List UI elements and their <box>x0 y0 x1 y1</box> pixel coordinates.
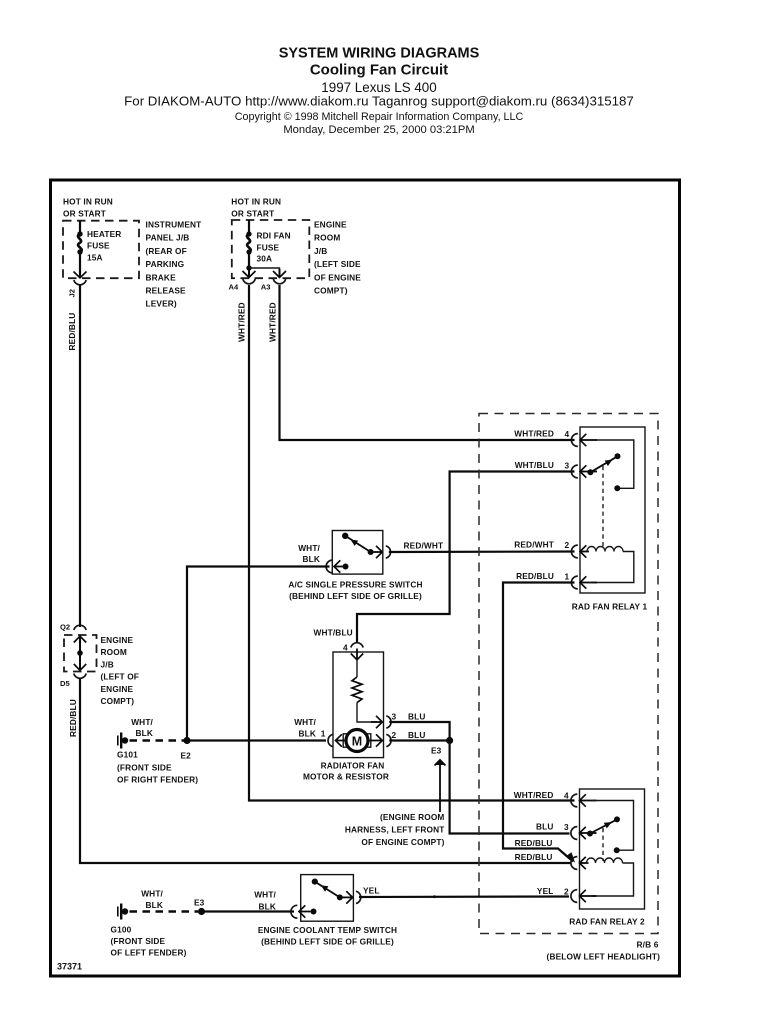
svg-text:E3: E3 <box>194 898 205 908</box>
svg-text:BLU: BLU <box>536 821 554 831</box>
connector arrow out right of a/c switch <box>371 546 383 558</box>
label WHT/BLK (temp switch feed) <box>254 890 276 912</box>
svg-text:WHT/BLU: WHT/BLU <box>314 627 353 637</box>
connector arrow down to D5 <box>74 653 86 670</box>
switch output dot <box>368 549 374 555</box>
wire WHT/BLU from relay1 pin3 to radiator fan pin4 <box>357 472 575 644</box>
relay1 pin 1: label RED/BLU 1 <box>516 571 569 582</box>
relay2 pin2 female cup <box>571 890 577 903</box>
wire branch to A3 <box>249 268 280 269</box>
wire pin4 to resistor <box>356 658 358 677</box>
svg-text:2: 2 <box>564 886 569 896</box>
svg-text:1: 1 <box>565 571 570 581</box>
svg-text:37371: 37371 <box>57 962 82 972</box>
connector arrow up into Q2 <box>74 636 86 652</box>
connector female cup fan pin2 <box>386 734 391 746</box>
label RDI FAN FUSE 30A <box>257 230 291 263</box>
svg-text:E3: E3 <box>431 746 442 756</box>
svg-text:BLK: BLK <box>298 729 316 739</box>
svg-text:RED/WHT: RED/WHT <box>514 539 554 549</box>
relay2 pin2 arrow <box>580 890 597 902</box>
svg-text:YEL: YEL <box>363 886 380 896</box>
svg-text:J2: J2 <box>68 289 77 297</box>
svg-text:WHT/: WHT/ <box>131 717 153 727</box>
svg-text:J/B: J/B <box>314 246 327 256</box>
label ENGINE COOLANT TEMP SWITCH <box>258 925 397 947</box>
relay1 pin3 female cup <box>571 465 577 478</box>
speck on YEL wire <box>433 895 436 898</box>
radiator fan motor and resistor box <box>333 652 384 758</box>
relay1 internal wire pin4 to fixed contact <box>592 440 634 488</box>
svg-text:RED/BLU: RED/BLU <box>515 852 553 862</box>
engine room J/B dashed box (top) <box>232 220 309 278</box>
svg-text:E2: E2 <box>181 751 192 761</box>
connector A4 female cup <box>243 279 255 284</box>
svg-text:WHT/: WHT/ <box>298 543 320 553</box>
svg-text:FUSE: FUSE <box>87 241 110 251</box>
relay1 pin 2: label RED/WHT 2 <box>514 539 569 550</box>
instrument panel J/B dashed box <box>63 221 139 279</box>
relay2 switch throw contact dot <box>614 816 620 822</box>
ground G101 <box>118 733 128 749</box>
svg-text:BLK: BLK <box>145 900 163 910</box>
svg-text:INSTRUMENT: INSTRUMENT <box>146 220 202 230</box>
svg-text:4: 4 <box>565 429 570 439</box>
relay1 pin1 arrow <box>580 576 597 588</box>
wire RED/BLU from J2 down to Q2 <box>79 285 81 627</box>
wire WHT/BLK from E3 to coolant temp switch <box>202 910 295 912</box>
wire resistor to pin3 <box>357 703 377 722</box>
relay2 pin 2: label YEL 2 <box>537 886 569 897</box>
svg-text:G101: G101 <box>117 750 138 760</box>
relay1 switch arm <box>590 456 617 472</box>
relay2 pin4 arrow <box>580 794 597 806</box>
label A/C SINGLE PRESSURE SWITCH <box>288 580 422 602</box>
wire BLU fan pin3 to node E3 <box>389 722 449 737</box>
relay2 pin3 female cup <box>571 827 577 840</box>
relay2 actuation dashed link <box>602 828 604 861</box>
relay1 switch movable contact dot <box>587 469 593 475</box>
svg-text:FUSE: FUSE <box>257 242 280 252</box>
switch arm a/c pressure switch <box>345 536 370 552</box>
svg-text:RADIATOR FAN: RADIATOR FAN <box>321 761 385 771</box>
label G101 (FRONT SIDE OF RIGHT FENDER) <box>117 750 198 785</box>
wire RED/BLU relay1 pin1 to relay2 coil feed <box>503 583 575 862</box>
svg-text:RED/BLU: RED/BLU <box>68 699 78 737</box>
connector female cup fan pin3 <box>386 716 391 728</box>
svg-text:RED/BLU: RED/BLU <box>67 313 77 351</box>
svg-text:(ENGINE ROOM: (ENGINE ROOM <box>380 812 445 822</box>
svg-text:BLK: BLK <box>258 902 276 912</box>
labels 2 BLU <box>392 730 426 740</box>
a/c pressure switch box <box>332 531 383 575</box>
node E3 junction dot <box>446 737 453 744</box>
svg-text:RDI FAN: RDI FAN <box>257 230 291 240</box>
relay1 pin4 female cup <box>571 434 577 447</box>
svg-text:RAD FAN RELAY 1: RAD FAN RELAY 1 <box>572 602 648 612</box>
svg-text:LEVER): LEVER) <box>146 299 177 309</box>
relay1 fixed contact dot <box>614 485 620 491</box>
relay2 coil <box>587 858 623 863</box>
wire WHT/RED from A3 down and right to relay1 pin4 <box>280 285 575 440</box>
node E2 junction dot <box>183 737 190 744</box>
engine room J/B (left) dashed box <box>64 635 97 672</box>
svg-text:Cooling Fan Circuit: Cooling Fan Circuit <box>310 62 448 79</box>
connector female cup right of a/c switch <box>386 546 391 558</box>
relay1 pin2 female cup <box>571 545 577 558</box>
svg-text:ENGINE: ENGINE <box>314 220 347 230</box>
resistor (fan motor resistor) <box>352 677 362 703</box>
label G100 (FRONT SIDE OF LEFT FENDER) <box>111 924 187 957</box>
connector arrow at J/B bottom <box>74 266 87 278</box>
svg-text:WHT/RED: WHT/RED <box>514 428 554 438</box>
connector A3 female cup <box>273 279 285 284</box>
relay1 actuation dashed link <box>602 466 604 549</box>
svg-text:WHT/: WHT/ <box>254 890 276 900</box>
svg-text:Copyright © 1998 Mitchell Repa: Copyright © 1998 Mitchell Repair Informa… <box>235 111 524 123</box>
relay2 fixed contact dot <box>614 847 620 853</box>
svg-text:3: 3 <box>392 712 397 722</box>
svg-text:(LEFT OF: (LEFT OF <box>101 672 140 682</box>
temp switch output dot <box>337 894 343 900</box>
relay2 internal wire coil to pin2 <box>592 863 634 896</box>
svg-text:HOT IN RUN: HOT IN RUN <box>231 197 281 207</box>
svg-text:4: 4 <box>564 790 569 800</box>
connector arrow A3 <box>273 269 286 277</box>
connector arrow into temp switch left pin <box>299 905 311 917</box>
svg-text:RED/BLU: RED/BLU <box>516 571 554 581</box>
connector arrow out fan pin3 <box>371 716 382 728</box>
svg-text:OF ENGINE COMPT): OF ENGINE COMPT) <box>361 837 444 847</box>
relay2 pin 3: label BLU 3 <box>536 821 569 832</box>
svg-text:J/B: J/B <box>101 659 114 669</box>
svg-text:15A: 15A <box>87 253 103 263</box>
connector D5 female cup <box>74 674 86 679</box>
svg-text:COMPT): COMPT) <box>314 286 348 296</box>
relay2 coil pin arrow <box>580 857 589 869</box>
label WHT/BLK (ground lead G100) <box>141 889 163 911</box>
relay1 coil <box>587 547 623 552</box>
relay RAD FAN RELAY 2 box <box>580 789 645 909</box>
wire WHT/RED from A4 down and right to relay2 pin4 <box>249 285 575 801</box>
svg-text:ROOM: ROOM <box>101 647 127 657</box>
svg-text:OR START: OR START <box>63 209 106 219</box>
svg-text:WHT/RED: WHT/RED <box>514 790 554 800</box>
svg-text:D5: D5 <box>60 679 70 688</box>
temp switch contact dot (top) <box>312 879 318 885</box>
relay2 internal wire pin4 to fixed contact <box>592 801 634 851</box>
node HOT IN RUN OR START (left) <box>63 197 113 219</box>
relay2 switch movable contact dot <box>587 831 593 837</box>
svg-text:OF LEFT FENDER): OF LEFT FENDER) <box>111 947 187 957</box>
svg-text:SYSTEM WIRING DIAGRAMS: SYSTEM WIRING DIAGRAMS <box>279 46 480 62</box>
relay1 pin 4: label WHT/RED 4 <box>514 428 569 439</box>
svg-text:RED/BLU: RED/BLU <box>515 838 553 848</box>
ground G100 <box>118 904 128 920</box>
relay2 pin 4: label WHT/RED 4 <box>514 790 569 801</box>
svg-text:3: 3 <box>565 460 570 470</box>
junction dot below fuse <box>246 265 251 270</box>
svg-text:(FRONT SIDE: (FRONT SIDE <box>117 763 172 773</box>
svg-text:ENGINE COOLANT TEMP SWITCH: ENGINE COOLANT TEMP SWITCH <box>258 925 397 935</box>
relay2 pin4 female cup <box>571 794 577 807</box>
header title block <box>124 46 634 137</box>
wire BLU from E3 down to relay2 pin3 <box>450 741 570 834</box>
svg-text:1: 1 <box>321 729 326 739</box>
svg-text:(BEHIND LEFT SIDE OF GRILLE): (BEHIND LEFT SIDE OF GRILLE) <box>261 937 394 947</box>
svg-text:4: 4 <box>343 643 348 653</box>
relay2 coil pin female cup <box>571 857 577 870</box>
connector female cup fan pin4 <box>351 643 363 648</box>
switch contact dot (top) inside a/c switch <box>342 533 348 539</box>
svg-text:WHT/: WHT/ <box>141 889 163 899</box>
wire RED/WHT from a/c switch to relay1 pin2 <box>389 550 575 553</box>
svg-text:ENGINE: ENGINE <box>101 684 134 694</box>
connector female cup left of a/c switch <box>326 560 332 573</box>
svg-text:BLK: BLK <box>302 554 320 564</box>
label ENGINE ROOM J/B (top right) <box>314 220 361 296</box>
connector Q2 female cup (top of engine room J/B left) <box>74 625 86 630</box>
svg-text:PARKING: PARKING <box>146 259 185 269</box>
svg-text:ROOM: ROOM <box>314 233 340 243</box>
label WHT/BLK (ground lead) <box>131 717 153 738</box>
svg-text:ENGINE: ENGINE <box>101 635 134 645</box>
svg-text:HOT IN RUN: HOT IN RUN <box>63 197 113 207</box>
svg-text:OF ENGINE: OF ENGINE <box>314 272 361 282</box>
svg-text:3: 3 <box>564 822 569 832</box>
connector arrow out fan pin2 (right) <box>368 734 382 746</box>
arrowhead RED/BLU into relay2 coil pin <box>566 852 576 862</box>
label WHT/BLK and pin 1 (radiator fan) <box>294 717 326 739</box>
svg-text:M: M <box>352 735 362 749</box>
junction dot inside J/B <box>77 650 83 656</box>
label INSTRUMENT PANEL J/B <box>146 220 202 309</box>
temp switch contact dot (bottom-left) <box>311 909 317 915</box>
svg-text:RAD FAN RELAY 2: RAD FAN RELAY 2 <box>569 917 645 927</box>
svg-text:A3: A3 <box>261 283 271 292</box>
svg-text:2: 2 <box>565 540 570 550</box>
relay1 pin4 arrow <box>580 434 597 446</box>
svg-text:(FRONT SIDE: (FRONT SIDE <box>111 936 166 946</box>
svg-text:For DIAKOM-AUTO http://www.dia: For DIAKOM-AUTO http://www.diakom.ru Tag… <box>124 94 634 109</box>
label (ENGINE ROOM HARNESS, LEFT FRONT OF ENGINE COMPT) <box>345 812 445 847</box>
svg-text:Monday, December 25, 2000 03:: Monday, December 25, 2000 03:21PM <box>283 124 474 136</box>
svg-text:WHT/BLU: WHT/BLU <box>515 460 554 470</box>
svg-text:BRAKE: BRAKE <box>146 272 177 282</box>
svg-text:WHT/RED: WHT/RED <box>237 302 247 342</box>
fuse HEATER FUSE 15A <box>77 221 82 277</box>
svg-text:(BEHIND LEFT SIDE OF GRILLE): (BEHIND LEFT SIDE OF GRILLE) <box>289 591 422 601</box>
svg-text:RELEASE: RELEASE <box>146 286 187 296</box>
connector arrow out right of temp switch <box>340 891 353 903</box>
harness callout arrow to E3 <box>435 760 446 813</box>
connector J2 female cup <box>74 280 86 285</box>
connector female cup fan pin1 <box>328 734 333 746</box>
svg-text:WHT/RED: WHT/RED <box>268 302 278 342</box>
svg-text:30A: 30A <box>257 253 273 263</box>
relay1 pin 3: label WHT/BLU 3 <box>515 460 570 471</box>
wire YEL temp switch to relay2 pin2 <box>359 895 569 898</box>
svg-text:2: 2 <box>392 730 397 740</box>
engine coolant temp switch box <box>301 875 354 922</box>
connector arrow down into fan pin4 <box>351 649 363 661</box>
switch contact dot (bottom-left) <box>343 564 349 570</box>
motor M (radiator fan) <box>343 730 371 752</box>
label HEATER FUSE 15A <box>87 229 121 263</box>
wire WHT/BLK dashed ground lead G100 to E3 <box>130 910 199 912</box>
relay2 pin3 arrow <box>580 827 597 839</box>
svg-text:RED/WHT: RED/WHT <box>404 541 444 551</box>
svg-text:COMPT): COMPT) <box>101 696 135 706</box>
connector arrow A4 <box>243 268 256 277</box>
R/B 6 dashed box <box>479 414 658 934</box>
wire RED/BLU from D5 down to relay2 coil feed <box>80 679 571 864</box>
svg-text:Q2: Q2 <box>60 623 70 632</box>
svg-text:OF RIGHT FENDER): OF RIGHT FENDER) <box>117 775 198 785</box>
relay1 internal wire coil to pin1 <box>592 552 634 583</box>
svg-text:(LEFT SIDE: (LEFT SIDE <box>314 259 361 269</box>
svg-text:YEL: YEL <box>537 886 554 896</box>
label ENGINE ROOM J/B (LEFT OF ENGINE COMPT) <box>101 635 140 706</box>
svg-text:(BELOW LEFT HEADLIGHT): (BELOW LEFT HEADLIGHT) <box>547 952 661 962</box>
relay1 pin1 female cup <box>571 576 577 589</box>
relay RAD FAN RELAY 1 box <box>580 427 645 593</box>
node HOT IN RUN OR START (right) <box>231 197 281 219</box>
relay1 pin2 arrow <box>580 545 589 557</box>
label WHT/BLK (a/c switch feed) <box>298 543 320 564</box>
svg-text:BLU: BLU <box>408 712 426 722</box>
connector female cup left of temp switch <box>291 905 297 918</box>
connector female cup right of temp switch <box>356 891 361 903</box>
wire WHT/BLK from E2 to radiator fan pin1 <box>187 739 326 741</box>
svg-text:(REAR OF: (REAR OF <box>146 246 187 256</box>
svg-text:G100: G100 <box>111 924 132 934</box>
svg-text:A/C SINGLE PRESSURE SWITCH: A/C SINGLE PRESSURE SWITCH <box>288 580 422 590</box>
temp switch arm <box>315 882 340 898</box>
relay1 pin3 arrow <box>580 465 597 477</box>
wire WHT/BLK dashed ground lead G101 to E2 <box>130 739 185 741</box>
svg-text:BLK: BLK <box>135 728 153 738</box>
label RADIATOR FAN MOTOR & RESISTOR <box>303 761 389 782</box>
labels 3 BLU <box>392 712 426 722</box>
diagram border frame <box>51 180 680 976</box>
relay1 switch throw contact dot <box>615 453 621 459</box>
relay2 switch arm <box>590 819 617 833</box>
svg-text:HARNESS, LEFT FRONT: HARNESS, LEFT FRONT <box>345 824 445 834</box>
svg-text:R/B 6: R/B 6 <box>637 940 659 950</box>
svg-text:MOTOR & RESISTOR: MOTOR & RESISTOR <box>303 772 389 782</box>
svg-text:PANEL J/B: PANEL J/B <box>146 233 190 243</box>
node E3 junction dot (lower) <box>198 908 205 915</box>
connector arrow into a/c switch left pin <box>334 560 345 572</box>
connector arrow out fan pin1 (left) <box>336 734 348 746</box>
svg-text:WHT/: WHT/ <box>294 717 316 727</box>
svg-text:BLU: BLU <box>408 730 426 740</box>
svg-text:HEATER: HEATER <box>87 229 121 239</box>
svg-text:OR START: OR START <box>231 209 274 219</box>
wire WHT/BLK from a/c switch left down to node E2 <box>187 567 330 739</box>
wire BLU fan pin2 to node E3 <box>389 739 449 741</box>
svg-text:A4: A4 <box>229 283 239 292</box>
fuse RDI FAN FUSE 30A <box>246 220 251 268</box>
